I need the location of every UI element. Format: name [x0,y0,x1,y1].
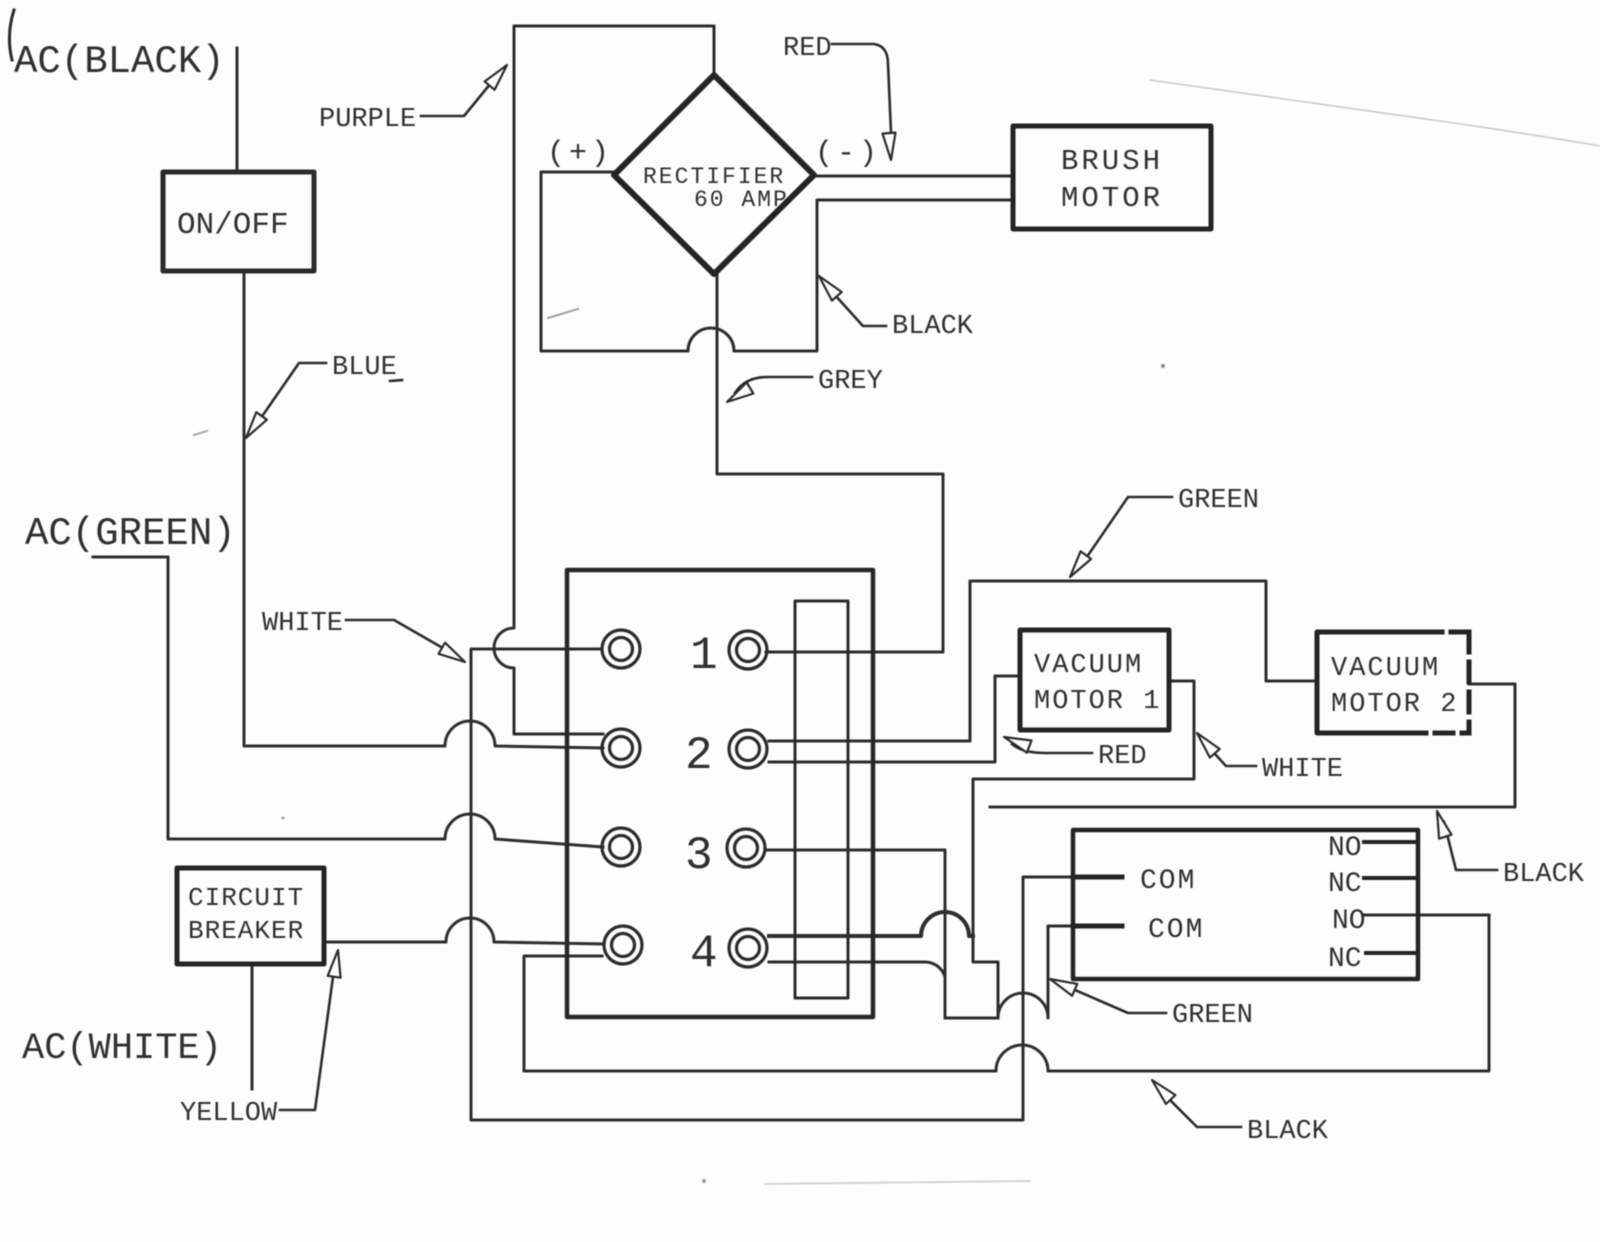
wire grey: rectifier bottom tip to terminal 1 right [717,274,943,652]
wire line B: terminal 4 left loop to relay NO3, hop over COM1 vertical [524,915,1489,1071]
wire rectifier minus to brush motor upper terminal [814,175,1012,178]
wire circuit breaker to terminal 4 left, hop over white vertical [325,918,604,944]
svg-text:BREAKER: BREAKER [188,916,304,946]
terminal circles [602,630,767,967]
svg-text:MOTOR: MOTOR [1061,182,1163,215]
wire vm2 black loop [990,684,1515,807]
svg-text:(+): (+) [547,137,613,171]
terminal block [567,570,873,1017]
wire AC white lead below circuit breaker [251,965,254,1089]
scan tick marks [548,309,578,318]
svg-text:BLUE: BLUE [332,353,397,383]
svg-text:AC(GREEN): AC(GREEN) [25,512,236,556]
svg-text:BLACK: BLACK [1503,860,1585,890]
svg-text:BLACK: BLACK [1247,1117,1329,1147]
scan streak top right [1150,80,1600,146]
terminal block inner bar [795,601,848,998]
relay terminal COM 1 [1073,875,1122,880]
relay terminal NO 1 [1364,840,1418,844]
svg-text:NO: NO [1328,833,1362,864]
svg-text:PURPLE: PURPLE [319,105,416,135]
scan speck [1161,364,1165,368]
relay terminal NC 4 [1366,951,1418,955]
wire blue: ON/OFF bottom down then right to terminal 2 left, hop over white vertical x471 [244,273,603,748]
scan streak bottom center [765,1181,1030,1184]
svg-text:MOTOR 2: MOTOR 2 [1331,690,1458,720]
svg-text:GREY: GREY [818,367,883,397]
svg-text:AC(WHITE): AC(WHITE) [22,1028,222,1070]
wire black row4 thick with hop over row3 vertical [769,912,973,936]
breaker CIRCUIT BREAKER [177,868,324,964]
wire white vm1: vacuum motor 1 right side down and around [973,681,1194,1018]
svg-text:VACUUM: VACUUM [1034,651,1143,681]
relay terminal NC 2 [1364,876,1418,880]
svg-text:AC(BLACK): AC(BLACK) [14,40,225,84]
relay box [1073,830,1418,979]
wire purple rail: from vertical riser to rectifier top tip [494,26,714,734]
svg-text:NC: NC [1328,869,1362,900]
svg-text:CIRCUIT: CIRCUIT [188,883,304,913]
motor BRUSH MOTOR [1013,126,1211,229]
wire AC green lead [93,557,603,847]
wire rectifier plus loop to brush motor lower terminal, hop over grey [541,172,1012,351]
svg-text:1: 1 [690,630,718,682]
svg-text:BRUSH: BRUSH [1061,145,1163,178]
svg-text:(-): (-) [815,137,881,171]
wire green upper: terminal 2 right to vacuum motor 2 [769,581,1317,741]
svg-text:4: 4 [690,928,718,980]
motor VACUUM MOTOR 2 (partially dashed border) [1317,632,1469,733]
relay terminal COM 2 [1073,924,1122,929]
svg-text:3: 3 [685,830,713,882]
svg-text:60 AMP: 60 AMP [694,187,789,213]
svg-text:RED: RED [783,34,832,64]
svg-text:BLACK: BLACK [892,312,974,342]
svg-text:NC: NC [1328,944,1362,975]
motor VACUUM MOTOR 1 [1020,630,1169,730]
rectifier diamond [614,75,814,274]
svg-text:GREEN: GREEN [1178,486,1259,516]
svg-text:COM: COM [1140,866,1196,897]
svg-text:YELLOW: YELLOW [180,1099,278,1129]
wire AC black lead into ON/OFF [236,48,239,170]
wire green lower: terminal 4 right to COM 2, hop over COM1 vertical [769,926,1122,1018]
svg-text:GREEN: GREEN [1172,1001,1253,1031]
svg-text:NO: NO [1332,906,1366,937]
svg-text:COM: COM [1148,915,1204,946]
wire relay NO3 extension [1364,914,1489,917]
svg-text:VACUUM: VACUUM [1331,654,1440,684]
wire red: terminal 2 right lower to vacuum motor 1 left [769,676,1019,762]
switch ON/OFF [163,172,314,271]
svg-text:MOTOR 1: MOTOR 1 [1034,687,1161,717]
svg-text:ON/OFF: ON/OFF [177,208,289,243]
svg-text:WHITE: WHITE [262,609,343,639]
svg-text:RED: RED [1098,742,1147,772]
svg-text:WHITE: WHITE [1262,755,1343,785]
wire row 3: terminal 3 right, down [766,850,945,1018]
svg-text:2: 2 [685,730,713,782]
wire white net: terminal 1 left, down left side, along bottom, up to COM 1 [471,649,1122,1120]
